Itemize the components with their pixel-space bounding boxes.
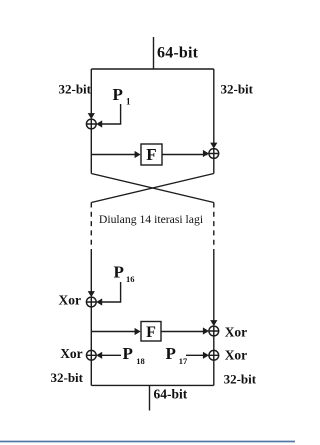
svg-text:Diulang 14 iterasi lagi: Diulang 14 iterasi lagi	[99, 213, 204, 226]
svg-text:32-bit: 32-bit	[59, 82, 92, 97]
svg-text:64-bit: 64-bit	[157, 45, 199, 62]
svg-text:Xor: Xor	[225, 347, 248, 362]
svg-text:Xor: Xor	[59, 293, 82, 308]
svg-text:F: F	[146, 145, 156, 164]
svg-text:32-bit: 32-bit	[51, 370, 84, 385]
svg-text:Xor: Xor	[225, 324, 248, 339]
svg-text:18: 18	[136, 356, 145, 366]
svg-text:1: 1	[126, 97, 131, 107]
svg-text:P: P	[166, 344, 176, 363]
svg-text:32-bit: 32-bit	[224, 371, 257, 386]
svg-text:F: F	[146, 324, 156, 341]
svg-text:Xor: Xor	[60, 346, 83, 361]
svg-text:P: P	[123, 344, 133, 363]
svg-text:64-bit: 64-bit	[154, 387, 188, 402]
svg-text:17: 17	[179, 356, 188, 366]
svg-text:16: 16	[126, 274, 135, 284]
svg-text:P: P	[114, 263, 124, 282]
svg-text:P: P	[113, 85, 123, 104]
svg-text:32-bit: 32-bit	[221, 82, 254, 97]
